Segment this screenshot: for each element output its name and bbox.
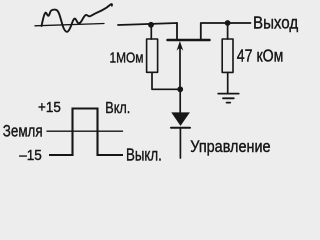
- svg-text:Вкл.: Вкл.: [105, 100, 130, 117]
- svg-text:Выход: Выход: [253, 13, 298, 33]
- svg-text:47 кОм: 47 кОм: [237, 46, 284, 66]
- svg-text:Выкл.: Выкл.: [126, 145, 162, 165]
- svg-text:Земля: Земля: [3, 122, 43, 141]
- svg-text:–15: –15: [19, 147, 42, 164]
- svg-text:+15: +15: [38, 99, 61, 116]
- svg-text:Управление: Управление: [190, 138, 270, 156]
- svg-text:1МОм: 1МОм: [110, 49, 144, 66]
